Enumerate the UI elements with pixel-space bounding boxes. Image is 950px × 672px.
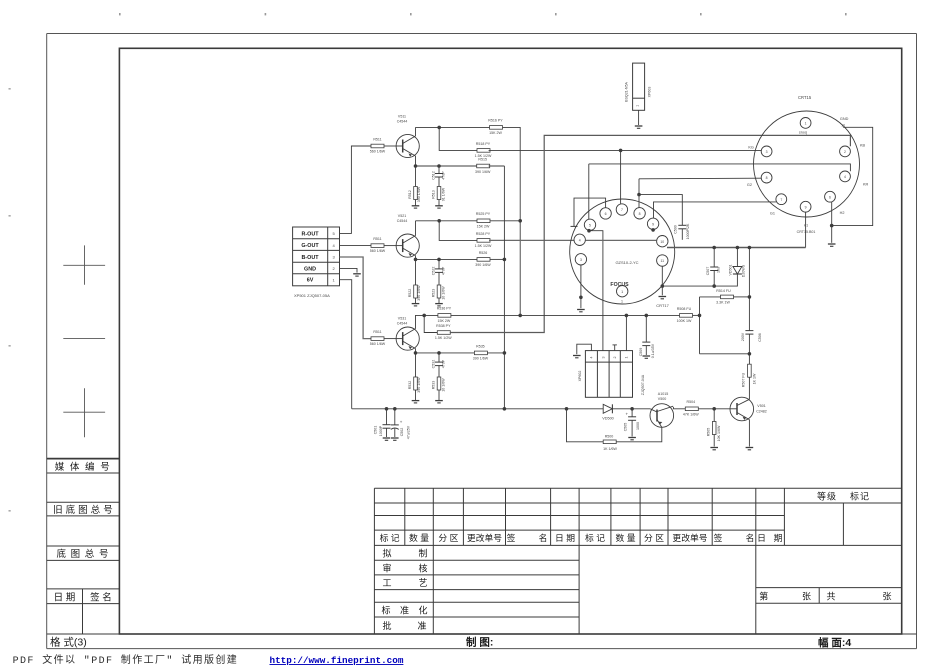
svg-text:C505: C505 bbox=[624, 423, 628, 432]
svg-text:390 1/6W: 390 1/6W bbox=[475, 170, 491, 174]
socket pin 6 bbox=[600, 208, 611, 219]
svg-text:5: 5 bbox=[589, 223, 591, 227]
junction KR to socket pin7 bbox=[619, 149, 623, 153]
svg-text:日 期: 日 期 bbox=[555, 533, 575, 543]
wire G-OUT to R521 bbox=[340, 245, 373, 247]
svg-text:15K 2W: 15K 2W bbox=[438, 319, 451, 323]
junction H2 gnd bbox=[830, 224, 834, 228]
wire V521 collector up bbox=[415, 221, 417, 236]
wire to ground bbox=[415, 200, 417, 206]
svg-text:1: 1 bbox=[621, 290, 623, 294]
socket pin 5 bbox=[584, 219, 595, 230]
wire to C502 bbox=[394, 409, 396, 425]
resistor R512 390 1/6W bbox=[414, 187, 418, 200]
svg-text:标: 标 bbox=[381, 605, 390, 616]
svg-text:共: 共 bbox=[826, 592, 835, 602]
svg-text:6: 6 bbox=[605, 212, 607, 216]
svg-text:7: 7 bbox=[621, 208, 623, 212]
svg-text:媒 体 编 号: 媒 体 编 号 bbox=[55, 461, 111, 473]
svg-text:1000P/2K: 1000P/2K bbox=[686, 223, 690, 239]
wire XP603 to ground bbox=[638, 110, 640, 125]
resistor R504 47K 1/6W bbox=[685, 407, 698, 411]
ground bbox=[412, 206, 420, 208]
svg-text:底 图 总 号: 底 图 总 号 bbox=[57, 548, 110, 560]
svg-text:R528 PY: R528 PY bbox=[476, 232, 491, 236]
svg-text:日 期: 日 期 bbox=[54, 592, 76, 603]
svg-text:名: 名 bbox=[539, 532, 548, 543]
wire V531 collector up bbox=[416, 315, 438, 328]
junction V521 collector node bbox=[437, 219, 441, 223]
wire C502 to ground bbox=[394, 429, 396, 437]
svg-text:4: 4 bbox=[579, 238, 581, 242]
tick mark left 1 bbox=[9, 88, 11, 90]
svg-text:R522: R522 bbox=[408, 289, 412, 298]
CRT pin 3 bbox=[761, 146, 772, 157]
transistor V500 A1015 bbox=[650, 404, 674, 428]
svg-text:10 1/6W: 10 1/6W bbox=[441, 378, 445, 392]
wire to R522 bbox=[415, 259, 417, 285]
frame inner border bbox=[119, 48, 901, 634]
wire R511 to base bbox=[384, 338, 396, 340]
svg-text:标记: 标记 bbox=[850, 490, 870, 501]
junction HV bus top bbox=[748, 246, 752, 250]
svg-text:H2: H2 bbox=[840, 211, 845, 215]
svg-text:470P: 470P bbox=[441, 266, 445, 275]
svg-text:艺: 艺 bbox=[418, 578, 427, 588]
transistor V501 C2482 bbox=[730, 397, 754, 421]
socket focus pin 1 bbox=[617, 286, 628, 297]
svg-text:10u: 10u bbox=[717, 267, 721, 273]
svg-text:G-OUT: G-OUT bbox=[301, 243, 319, 249]
junction R525 bus bbox=[518, 219, 522, 223]
svg-text:G1: G1 bbox=[770, 212, 775, 216]
svg-text:R533: R533 bbox=[432, 381, 436, 390]
svg-text:B-OUT: B-OUT bbox=[301, 255, 319, 261]
junction VD501 top bbox=[736, 246, 740, 250]
svg-text:格 式(3): 格 式(3) bbox=[50, 636, 87, 649]
wire C505 to ground bbox=[631, 420, 633, 436]
CRT pin 2 bbox=[840, 146, 851, 157]
socket pin 4 bbox=[574, 234, 585, 245]
wire CRT GND pin10 loop bbox=[832, 127, 873, 225]
svg-text:560 1/6W: 560 1/6W bbox=[370, 342, 386, 346]
junction V521 emitter cap branch bbox=[437, 258, 441, 262]
svg-text:准: 准 bbox=[400, 606, 409, 616]
transistor V511 C4544 bbox=[396, 134, 419, 157]
svg-text:11: 11 bbox=[661, 259, 665, 263]
capacitor C522 470P bbox=[435, 269, 443, 273]
svg-text:签: 签 bbox=[507, 532, 516, 543]
resistor R514 FU 3.3K 1W bbox=[721, 295, 734, 299]
ground bbox=[412, 304, 420, 306]
frame outer right bbox=[916, 34, 918, 649]
svg-text:10: 10 bbox=[660, 240, 664, 244]
svg-text:XP501 ZJQ507-05A: XP501 ZJQ507-05A bbox=[294, 293, 330, 298]
resistor V531 base resistor R511 bbox=[371, 337, 384, 341]
ground bbox=[643, 356, 651, 358]
svg-text:9: 9 bbox=[652, 222, 654, 226]
wire V500 collector to R500 bbox=[616, 427, 662, 442]
ground bbox=[628, 438, 636, 440]
svg-text:4: 4 bbox=[844, 175, 846, 179]
wire to R533 bbox=[438, 366, 440, 377]
svg-text:15K 2W: 15K 2W bbox=[489, 131, 502, 135]
svg-text:C532: C532 bbox=[431, 360, 435, 369]
wire to R532 bbox=[415, 353, 417, 377]
wire to R523 bbox=[438, 272, 440, 285]
svg-text:R507 FU: R507 FU bbox=[742, 372, 746, 387]
junction R505 bbox=[712, 407, 716, 411]
svg-text:3: 3 bbox=[602, 357, 606, 359]
wire GND pin bbox=[340, 268, 358, 272]
svg-text:标 记: 标 记 bbox=[585, 532, 605, 543]
wire to R505 bbox=[713, 409, 715, 422]
svg-text:560 1/6W: 560 1/6W bbox=[370, 150, 386, 154]
wire V511 emitter down bbox=[415, 156, 417, 166]
svg-text:8: 8 bbox=[766, 176, 768, 180]
junction pin3 node bbox=[579, 296, 583, 300]
wire CRT pin9 H1 down bbox=[805, 212, 807, 247]
wire C506 to node bbox=[748, 334, 750, 354]
wire R514 left bbox=[700, 296, 721, 298]
svg-text:1: 1 bbox=[621, 300, 623, 304]
svg-text:8: 8 bbox=[639, 212, 641, 216]
wire down to socket pin 7 bbox=[620, 150, 622, 203]
wire emitter row to bus bbox=[490, 258, 504, 260]
wire R528 to socket pin4 bbox=[489, 239, 574, 241]
junction V531 emitter bbox=[414, 351, 418, 355]
wire bus to C506 bbox=[748, 297, 750, 331]
svg-text:R-OUT: R-OUT bbox=[301, 231, 319, 237]
resistor R507 FU 1K 1W bbox=[748, 364, 752, 377]
ground bbox=[391, 438, 399, 440]
svg-text:R504: R504 bbox=[687, 400, 696, 404]
wire V531 emitter down bbox=[415, 349, 417, 353]
socket pin 8 bbox=[634, 208, 645, 219]
svg-text:R513: R513 bbox=[432, 190, 436, 199]
bottom strip line bbox=[47, 633, 917, 635]
wire pin3 down to ground bbox=[580, 265, 582, 308]
ground bbox=[828, 244, 836, 246]
svg-text:CRT15: CRT15 bbox=[798, 95, 812, 100]
svg-text:1000P: 1000P bbox=[379, 425, 383, 436]
svg-text:1K 1W: 1K 1W bbox=[752, 373, 756, 384]
svg-text:V501: V501 bbox=[757, 404, 765, 408]
svg-text:BSQ21-N5A: BSQ21-N5A bbox=[625, 82, 629, 102]
junction V531 emitter cap branch bbox=[437, 351, 441, 355]
wire socket pin8 up bbox=[638, 179, 640, 208]
svg-text:47u/25V: 47u/25V bbox=[406, 425, 410, 439]
svg-text:FOCUS: FOCUS bbox=[610, 282, 629, 288]
svg-text:R515: R515 bbox=[478, 157, 487, 161]
ground bbox=[577, 310, 585, 312]
wire XP602 pin4 to ground bbox=[577, 344, 592, 354]
wire R500 to rail bbox=[567, 409, 604, 442]
ground bbox=[353, 274, 361, 276]
wire socket pin6 stub bbox=[574, 198, 606, 226]
svg-text:KR: KR bbox=[863, 183, 869, 187]
svg-text:旧 底 图 总 号: 旧 底 图 总 号 bbox=[53, 504, 113, 516]
svg-text:C502: C502 bbox=[400, 428, 404, 437]
resistor R513 91 1/6W bbox=[437, 187, 441, 200]
svg-text:100K 1W: 100K 1W bbox=[677, 319, 692, 323]
junction C507 bottom bbox=[712, 284, 716, 288]
wire to R512 bbox=[415, 166, 417, 187]
wire pin5 to XP602 pin3 bbox=[589, 231, 603, 351]
wire KG line down to socket pin5 bbox=[588, 164, 590, 220]
registration cross lower bbox=[63, 388, 105, 437]
svg-text:R500: R500 bbox=[605, 434, 614, 438]
svg-text:200V: 200V bbox=[741, 332, 745, 341]
svg-text:R525 PY: R525 PY bbox=[476, 212, 491, 216]
CRT pin 8 bbox=[761, 172, 772, 183]
svg-text:VD500: VD500 bbox=[602, 416, 614, 420]
svg-text:制: 制 bbox=[418, 548, 427, 559]
svg-text:ZJQ507-04A: ZJQ507-04A bbox=[641, 374, 645, 395]
svg-text:390 1/6W: 390 1/6W bbox=[417, 186, 421, 202]
wire V521 emitter down bbox=[415, 256, 417, 260]
wire XP602 pin2 stub bbox=[614, 345, 616, 351]
svg-text:数 量: 数 量 bbox=[615, 532, 635, 543]
CRT pin 1 bbox=[800, 118, 811, 129]
svg-text:470P: 470P bbox=[441, 359, 445, 368]
svg-text:1K 1/6W: 1K 1/6W bbox=[603, 447, 617, 451]
junction C502 bbox=[393, 407, 397, 411]
wire R504 to V501 base bbox=[698, 408, 730, 410]
svg-text:C509: C509 bbox=[639, 348, 643, 357]
svg-text:化: 化 bbox=[418, 605, 427, 616]
wire VD500 to V500 bbox=[612, 408, 650, 410]
svg-text:+: + bbox=[400, 419, 403, 424]
svg-text:期: 期 bbox=[774, 533, 783, 543]
svg-text:R535: R535 bbox=[476, 344, 485, 348]
svg-text:7: 7 bbox=[780, 198, 782, 202]
resistor R528 PY 1.5K 1/2W bbox=[477, 239, 490, 243]
wire V500 emitter to R504 bbox=[673, 407, 685, 409]
wire to ground bbox=[438, 390, 440, 401]
resistor R526 390 1/6W bbox=[477, 258, 490, 262]
svg-text:R516 PY: R516 PY bbox=[488, 118, 503, 122]
junction bus supply rail bbox=[503, 407, 507, 411]
wire CRT pin6 H2 down bbox=[831, 202, 833, 243]
junction R536 bus bbox=[518, 314, 522, 318]
wire to ground bbox=[438, 200, 440, 206]
svg-text:R512: R512 bbox=[408, 190, 412, 199]
wire emitter row bbox=[416, 258, 478, 260]
capacitor C507 10u bbox=[710, 267, 718, 271]
junction V511 collector node bbox=[437, 126, 441, 130]
socket pin 11 bbox=[657, 255, 668, 266]
wire to C501 bbox=[386, 409, 388, 425]
svg-text:张: 张 bbox=[802, 592, 811, 602]
svg-text:日: 日 bbox=[757, 533, 766, 543]
svg-text:分 区: 分 区 bbox=[438, 533, 458, 543]
svg-text:1.5K 1/2W: 1.5K 1/2W bbox=[475, 244, 492, 248]
svg-text:47K 1/6W: 47K 1/6W bbox=[683, 413, 699, 417]
svg-text:CRT17: CRT17 bbox=[656, 303, 669, 308]
wire R514 to bus bbox=[734, 296, 750, 298]
svg-text:1: 1 bbox=[636, 105, 640, 107]
wire V501 emitter to ground bbox=[748, 420, 750, 447]
svg-text:H1: H1 bbox=[804, 224, 808, 228]
wire supply row to R508 bbox=[451, 314, 680, 316]
svg-text:D20WS: D20WS bbox=[742, 264, 746, 277]
svg-text:1.5K 1/2W: 1.5K 1/2W bbox=[435, 336, 452, 340]
wire heater rail bbox=[667, 247, 806, 249]
svg-text:GND: GND bbox=[304, 266, 316, 272]
svg-text:+: + bbox=[626, 411, 629, 416]
svg-text:R511: R511 bbox=[373, 237, 381, 241]
svg-text:C2482: C2482 bbox=[756, 410, 767, 414]
wire bottom rail left bbox=[352, 408, 604, 410]
resistor R500 1K 1/6W bbox=[603, 440, 616, 444]
svg-text:V531: V531 bbox=[398, 317, 406, 321]
ground bbox=[635, 126, 643, 128]
tick mark left 4 bbox=[9, 510, 11, 512]
resistor R533 10 1/6W bbox=[437, 377, 441, 390]
diode VD501 D20WS bbox=[714, 248, 742, 287]
svg-text:R505: R505 bbox=[706, 428, 710, 437]
svg-text:0.1u/35V: 0.1u/35V bbox=[651, 343, 655, 358]
svg-text:C4544: C4544 bbox=[397, 322, 408, 326]
wire R515 row to bus bbox=[489, 165, 505, 167]
junction C507 top bbox=[712, 246, 716, 250]
svg-text:GND: GND bbox=[840, 117, 849, 121]
resistor R508 FU 100K 1W bbox=[680, 314, 693, 318]
svg-text:KB: KB bbox=[860, 144, 866, 148]
tick mark top 5 bbox=[700, 13, 702, 15]
svg-text:制 图:: 制 图: bbox=[466, 635, 493, 648]
svg-text:2: 2 bbox=[613, 357, 617, 359]
svg-text:2: 2 bbox=[844, 150, 846, 154]
svg-text:390 1/6W: 390 1/6W bbox=[473, 357, 489, 361]
svg-text:张: 张 bbox=[882, 592, 891, 602]
svg-text:R514 FU: R514 FU bbox=[716, 289, 731, 293]
ground bbox=[659, 297, 667, 299]
wire emitter row to bus bbox=[487, 352, 504, 354]
svg-text:核: 核 bbox=[418, 562, 427, 573]
wire emitter row bbox=[416, 352, 475, 354]
CRT pin 6 bbox=[825, 191, 836, 202]
svg-text:R518 PY: R518 PY bbox=[476, 142, 491, 146]
tick mark top 6 bbox=[845, 13, 847, 15]
tick mark top 2 bbox=[265, 13, 267, 15]
svg-text:91 1/6W: 91 1/6W bbox=[441, 187, 445, 201]
capacitor C506 200V bbox=[745, 331, 753, 335]
resistor R536 PY 15K 2W bbox=[438, 314, 451, 318]
ground bbox=[412, 401, 420, 403]
wire to C522 bbox=[438, 259, 440, 269]
junction pin5 node bbox=[587, 229, 591, 233]
wire emitter row to bus bbox=[490, 165, 505, 167]
svg-text:C501: C501 bbox=[373, 426, 377, 435]
resistor R523 10 1/6W bbox=[437, 285, 441, 298]
svg-text:15K 2W: 15K 2W bbox=[477, 224, 490, 228]
svg-text:C507: C507 bbox=[706, 267, 710, 276]
svg-text:CRT15.B01: CRT15.B01 bbox=[797, 230, 816, 234]
svg-text:C512: C512 bbox=[431, 171, 435, 180]
resistor V511 base resistor R511 bbox=[371, 144, 384, 148]
svg-text:XP602: XP602 bbox=[578, 371, 582, 382]
resistor R525 PY 15K 2W bbox=[477, 219, 490, 223]
svg-text:390 1/6W: 390 1/6W bbox=[417, 377, 421, 393]
tick mark top 4 bbox=[555, 13, 557, 15]
wire gnd node to C507 bottom bbox=[662, 285, 714, 287]
resistor R535 390 1/6W bbox=[474, 351, 487, 355]
junction C501 bbox=[385, 407, 389, 411]
wire V511 collector up bbox=[415, 127, 417, 136]
wire C506 bottom link bbox=[700, 353, 750, 355]
wire to C505 bbox=[631, 409, 633, 417]
diode VD500 bbox=[603, 404, 612, 413]
svg-text:KG: KG bbox=[748, 146, 754, 150]
junction XP602 pin1 bbox=[625, 314, 629, 318]
svg-text:390 1/6W: 390 1/6W bbox=[475, 263, 491, 267]
svg-text:V511: V511 bbox=[398, 115, 406, 119]
junction R508 node bbox=[698, 314, 702, 318]
socket pin 10 bbox=[657, 236, 668, 247]
svg-text:分 区: 分 区 bbox=[644, 533, 664, 543]
ground bbox=[435, 206, 443, 208]
tick mark left 3 bbox=[9, 345, 11, 347]
svg-text:标 记: 标 记 bbox=[380, 532, 400, 543]
resistor R515 390 1/6W bbox=[477, 164, 490, 168]
capacitor C501 1000P bbox=[383, 425, 391, 429]
wire emitter supply bus bbox=[503, 166, 505, 409]
wire C501 to ground bbox=[386, 428, 388, 437]
wire C500 lower stub bbox=[681, 229, 683, 240]
wire R514 parallel branch bbox=[699, 297, 701, 354]
wire C509 to ground bbox=[645, 346, 647, 355]
wire 6V rail down bbox=[340, 280, 352, 409]
capacitor C509 0.1u/35V bbox=[642, 342, 650, 346]
capacitor C502 47u/25V electrolytic bbox=[391, 419, 403, 429]
svg-text:470P: 470P bbox=[441, 171, 445, 180]
svg-text:1: 1 bbox=[805, 122, 807, 126]
ground bbox=[435, 401, 443, 403]
svg-text:3: 3 bbox=[766, 150, 768, 154]
svg-text:10K 1/6W: 10K 1/6W bbox=[717, 425, 721, 441]
junction V531 collector node bbox=[422, 314, 426, 318]
wire R505 to ground bbox=[713, 435, 715, 447]
wire XP602 pin1 up bbox=[625, 315, 627, 350]
wire collector row bbox=[416, 126, 490, 128]
svg-text:XP603: XP603 bbox=[648, 87, 652, 98]
wire to R513 bbox=[438, 177, 440, 187]
tick mark top 3 bbox=[410, 13, 412, 15]
svg-text:3: 3 bbox=[580, 258, 582, 262]
transistor V531 C4544 bbox=[396, 327, 419, 350]
junction C506 bottom bbox=[748, 352, 752, 356]
resistor R532 390 1/6W bbox=[414, 377, 418, 390]
resistor R518 PY 1.5K 1/2W bbox=[477, 149, 490, 153]
wire G1 line CRT pin7 to socket pin9 bbox=[654, 202, 776, 218]
wire to C532 bbox=[438, 353, 440, 362]
svg-text:srooj: srooj bbox=[799, 130, 807, 134]
svg-text:560 1/6W: 560 1/6W bbox=[370, 249, 386, 253]
transistor V521 C4544 bbox=[396, 234, 419, 257]
capacitor C512 470P bbox=[435, 174, 443, 178]
wire to C500 bbox=[639, 195, 682, 226]
svg-text:拟: 拟 bbox=[382, 548, 391, 559]
junction bus emitter G bbox=[503, 258, 507, 262]
junction bus emitter B bbox=[503, 351, 507, 355]
wire to R528 PY bbox=[439, 221, 477, 241]
CRT pin 9 bbox=[800, 201, 811, 212]
wire socket pin4 to pin10 bbox=[585, 239, 656, 241]
wire C507 bottom bbox=[713, 271, 715, 287]
svg-text:R508 FU: R508 FU bbox=[677, 307, 692, 311]
